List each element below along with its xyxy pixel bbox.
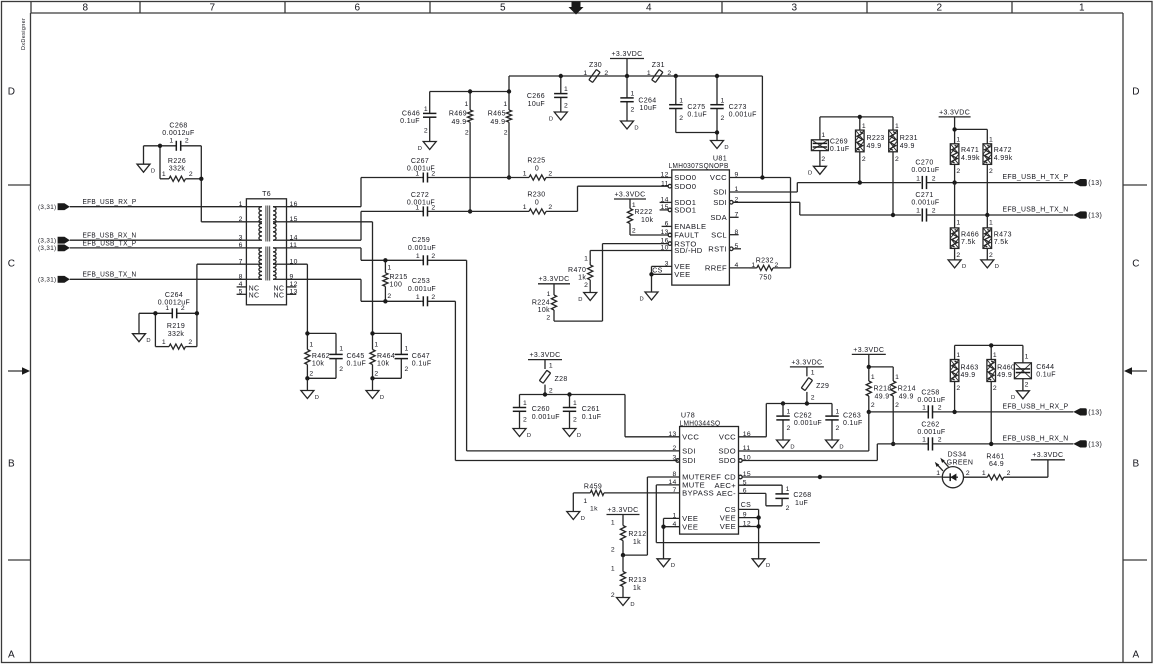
svg-text:2: 2 — [431, 204, 435, 211]
capacitor C271 — [911, 192, 1073, 222]
svg-text:2: 2 — [405, 366, 409, 373]
ground for C261 — [563, 429, 581, 439]
ground for R462/C645 — [301, 391, 319, 401]
svg-text:+3.3VDC: +3.3VDC — [791, 359, 822, 366]
junction U78 VEE left — [661, 525, 665, 529]
wire C275/C273 bottoms — [676, 133, 717, 141]
svg-text:1: 1 — [503, 101, 507, 108]
svg-text:4.99k: 4.99k — [961, 155, 980, 162]
ground for C262 — [777, 440, 795, 450]
svg-text:2: 2 — [787, 425, 791, 432]
wire termination rail — [820, 117, 893, 140]
svg-text:2: 2 — [604, 70, 608, 77]
junction R215 bottom — [383, 299, 387, 303]
port EFB_USB_H_TX_P — [1003, 174, 1103, 187]
svg-text:0.001uF: 0.001uF — [729, 111, 757, 118]
svg-text:BYPASS: BYPASS — [682, 489, 714, 498]
junction R460 on RX_N — [989, 442, 993, 446]
wire T6 pin11 to C259 row — [287, 248, 422, 260]
svg-text:49.9: 49.9 — [451, 119, 466, 126]
junction C261 top — [567, 392, 571, 396]
resistor R215 — [383, 260, 408, 301]
ground for R466 — [948, 260, 966, 270]
svg-text:Z29: Z29 — [816, 383, 829, 390]
ferrite bead Z31 — [647, 62, 672, 82]
svg-text:13: 13 — [668, 431, 676, 438]
svg-text:SDO0: SDO0 — [674, 182, 696, 191]
svg-text:EFB_USB_RX_P: EFB_USB_RX_P — [83, 197, 137, 206]
wire left decoupling rail — [430, 76, 509, 92]
svg-text:7.5k: 7.5k — [961, 239, 976, 246]
svg-text:2: 2 — [309, 370, 313, 377]
svg-text:2: 2 — [573, 416, 577, 423]
junction R464 top — [370, 331, 374, 335]
wire U78 VEE left to ground — [664, 518, 680, 558]
svg-text:1: 1 — [523, 400, 527, 407]
svg-text:2: 2 — [431, 170, 435, 177]
capacitor C270 — [911, 160, 1073, 190]
svg-text:1: 1 — [424, 106, 428, 113]
svg-text:6: 6 — [355, 3, 361, 14]
svg-text:D: D — [634, 125, 639, 131]
ground for R470 — [578, 293, 596, 303]
svg-text:2: 2 — [932, 208, 936, 215]
svg-text:C647: C647 — [412, 353, 430, 360]
svg-text:1: 1 — [647, 70, 651, 77]
junction R464 bottom — [370, 376, 374, 380]
svg-text:2: 2 — [523, 416, 527, 423]
svg-text:C267: C267 — [411, 158, 429, 165]
svg-text:2: 2 — [721, 115, 725, 122]
svg-text:12: 12 — [290, 281, 298, 288]
capacitor C264 — [155, 292, 197, 318]
svg-text:1: 1 — [836, 409, 840, 416]
svg-text:DS34: DS34 — [948, 452, 967, 459]
junction C266 top — [559, 74, 563, 78]
capacitor C268 — [160, 123, 201, 151]
svg-text:R218: R218 — [874, 386, 892, 393]
junction U78 VEE9 — [756, 515, 760, 519]
wire R232 to VCC — [790, 178, 792, 268]
svg-text:1: 1 — [339, 346, 343, 353]
svg-text:A: A — [1132, 650, 1139, 661]
resistor R226 — [160, 158, 201, 181]
svg-text:SDO0: SDO0 — [674, 173, 696, 182]
junction R462 bottom — [305, 376, 309, 380]
svg-text:(13): (13) — [1088, 409, 1102, 416]
resistor R473 (hatched) — [983, 215, 1012, 260]
svg-text:0.1uF: 0.1uF — [412, 360, 432, 367]
svg-text:1: 1 — [916, 208, 920, 215]
svg-text:VCC: VCC — [719, 433, 736, 442]
junction R462 top — [305, 331, 309, 335]
svg-text:R231: R231 — [900, 135, 918, 142]
svg-text:(13): (13) — [1088, 213, 1102, 220]
capacitor C258 — [869, 389, 1074, 418]
resistor R230 — [523, 192, 553, 214]
port EFB_USB_H_TX_N — [1003, 207, 1103, 220]
svg-text:2: 2 — [188, 339, 192, 346]
svg-text:2: 2 — [672, 445, 676, 452]
svg-text:C253: C253 — [412, 278, 430, 285]
svg-text:VEE: VEE — [682, 522, 698, 531]
ground for U81 VEE — [640, 292, 658, 302]
junction R471 feed — [952, 127, 956, 131]
ground for C266 — [549, 112, 567, 122]
svg-text:2: 2 — [548, 204, 552, 211]
resistor R224 pull-up — [532, 276, 570, 321]
svg-text:C272: C272 — [411, 192, 429, 199]
svg-text:RSTI: RSTI — [708, 245, 727, 254]
svg-text:D: D — [766, 563, 771, 569]
svg-text:EFB_USB_H_RX_N: EFB_USB_H_RX_N — [1003, 436, 1069, 443]
resistor R470 — [568, 255, 593, 292]
wire R463/R460/C644 rail — [955, 345, 1023, 362]
svg-text:D: D — [581, 516, 586, 522]
svg-text:D: D — [1132, 87, 1140, 98]
svg-text:2: 2 — [821, 156, 825, 163]
svg-text:Z28: Z28 — [555, 376, 568, 383]
capacitor C253 — [408, 278, 455, 306]
svg-text:(13): (13) — [1088, 180, 1102, 187]
svg-text:Z31: Z31 — [652, 62, 665, 69]
svg-text:+3.3VDC: +3.3VDC — [611, 51, 642, 58]
svg-text:1: 1 — [583, 70, 587, 77]
svg-text:C269: C269 — [830, 138, 848, 145]
svg-text:2: 2 — [504, 130, 508, 137]
svg-text:1: 1 — [584, 255, 588, 262]
ferrite bead Z28 — [528, 352, 568, 395]
svg-text:1: 1 — [387, 264, 391, 271]
svg-text:2: 2 — [811, 395, 815, 402]
svg-text:1k: 1k — [578, 275, 586, 282]
resistor R460 (hatched) — [987, 352, 1015, 444]
svg-text:0.0012uF: 0.0012uF — [162, 130, 194, 137]
junction Z29 out — [805, 401, 809, 405]
svg-text:7.5k: 7.5k — [994, 239, 1009, 246]
svg-text:VEE: VEE — [720, 513, 736, 522]
wire top +3.3V rail — [509, 76, 762, 178]
junction R465 bottom on C267 row — [507, 175, 511, 179]
junction U81 VEE — [649, 272, 653, 276]
svg-text:1: 1 — [956, 219, 960, 226]
svg-text:4.99k: 4.99k — [994, 155, 1013, 162]
svg-text:R222: R222 — [635, 209, 653, 216]
resistor R465 — [488, 92, 512, 178]
svg-text:D: D — [995, 264, 1000, 270]
svg-text:0.001uF: 0.001uF — [408, 286, 436, 293]
svg-text:2: 2 — [938, 405, 942, 412]
svg-text:1: 1 — [631, 91, 635, 98]
svg-text:R471: R471 — [961, 147, 979, 154]
wire EFB_USB_TX_N — [70, 278, 247, 280]
svg-text:3: 3 — [792, 3, 798, 14]
svg-text:CS: CS — [741, 502, 751, 509]
resistor R461 — [964, 453, 1048, 480]
wire C268 to R226 left — [159, 146, 161, 179]
svg-text:R465: R465 — [488, 111, 506, 118]
svg-text:C646: C646 — [402, 111, 420, 118]
svg-text:1k: 1k — [633, 539, 641, 546]
resistor R222 pull-up — [614, 191, 653, 235]
capacitor C263 — [825, 408, 862, 441]
svg-text:7: 7 — [210, 3, 216, 14]
svg-text:750: 750 — [759, 274, 772, 281]
svg-text:2: 2 — [966, 470, 970, 477]
svg-text:D: D — [962, 264, 967, 270]
junction R471 on TX_P — [952, 180, 956, 184]
svg-text:64.9: 64.9 — [989, 461, 1004, 468]
svg-text:0: 0 — [535, 199, 539, 206]
svg-text:R472: R472 — [994, 147, 1012, 154]
capacitor C260 — [513, 395, 560, 429]
svg-text:2: 2 — [895, 402, 899, 409]
svg-text:1: 1 — [895, 123, 899, 130]
junction R218 on RX_P — [867, 410, 871, 414]
svg-text:+3.3VDC: +3.3VDC — [607, 507, 638, 514]
svg-text:2: 2 — [374, 370, 378, 377]
svg-text:VCC: VCC — [682, 433, 699, 442]
junction C264 pin1 — [153, 311, 157, 315]
ground for C646 — [418, 142, 436, 152]
svg-text:1: 1 — [374, 342, 378, 349]
svg-text:C644: C644 — [1036, 364, 1054, 371]
svg-text:C273: C273 — [729, 104, 747, 111]
svg-text:SDI: SDI — [682, 447, 696, 456]
svg-text:NC: NC — [249, 293, 260, 300]
resistor R223 (hatched) — [856, 123, 885, 183]
ground for U78 VEE right — [752, 559, 770, 569]
svg-text:+3.3VDC: +3.3VDC — [853, 347, 884, 354]
svg-text:0.001uF: 0.001uF — [911, 200, 939, 207]
junction +3.3VDC rail — [625, 74, 629, 78]
top center arrow — [569, 2, 584, 15]
svg-text:2: 2 — [932, 175, 936, 182]
resistor R464 / capacitor C647 — [370, 333, 432, 378]
svg-text:C268: C268 — [793, 492, 811, 499]
resistor R466 (hatched) — [950, 183, 979, 260]
ground for R459 — [567, 512, 585, 522]
capacitor C262 — [776, 404, 822, 441]
svg-text:A: A — [8, 650, 15, 661]
wire R464 to ground — [372, 378, 374, 390]
svg-text:4: 4 — [646, 3, 652, 14]
svg-text:2: 2 — [181, 305, 185, 312]
svg-text:4: 4 — [239, 281, 243, 288]
svg-text:R226: R226 — [168, 158, 186, 165]
svg-text:R223: R223 — [867, 135, 885, 142]
svg-text:R463: R463 — [961, 364, 979, 371]
junction R212/R213 node — [621, 553, 625, 557]
junction U81 VCC — [760, 175, 764, 179]
svg-text:1: 1 — [982, 470, 986, 477]
svg-text:1: 1 — [679, 97, 683, 104]
junction termination rail — [858, 115, 862, 119]
junction R223 on TX_P — [858, 180, 862, 184]
svg-text:+3.3VDC: +3.3VDC — [1032, 452, 1063, 459]
svg-text:10uF: 10uF — [640, 105, 657, 112]
svg-text:2: 2 — [387, 293, 391, 300]
junction Z28 out — [543, 392, 547, 396]
svg-text:1: 1 — [162, 171, 166, 178]
ground for C269 — [808, 166, 826, 176]
power +3.3VDC for R218/R214 — [852, 347, 893, 381]
svg-text:2: 2 — [611, 592, 615, 599]
svg-text:C268: C268 — [169, 123, 187, 130]
svg-text:2: 2 — [465, 130, 469, 137]
capacitor C267 — [407, 158, 509, 183]
svg-text:C263: C263 — [843, 412, 861, 419]
junction C273 bottom — [715, 130, 719, 134]
junction R231 on TX_N — [891, 213, 895, 217]
svg-text:0.1uF: 0.1uF — [830, 146, 850, 153]
svg-text:2: 2 — [989, 168, 993, 175]
svg-text:VEE: VEE — [674, 270, 690, 279]
wire EFB_USB_RX_P — [70, 206, 247, 208]
svg-text:2: 2 — [631, 107, 635, 114]
wire C264 to R219 left — [154, 313, 156, 346]
junction R472 on TX_N — [985, 213, 989, 217]
svg-text:1k: 1k — [633, 585, 641, 592]
svg-text:R459: R459 — [584, 483, 602, 490]
power +3.3VDC top — [610, 51, 644, 76]
svg-text:R462: R462 — [312, 353, 330, 360]
svg-text:R466: R466 — [961, 231, 979, 238]
svg-text:2: 2 — [564, 102, 568, 109]
resistor R218 — [866, 367, 891, 412]
wire T6 pin16 to C267 row — [287, 178, 422, 207]
svg-text:1: 1 — [239, 201, 243, 208]
svg-text:49.9: 49.9 — [867, 143, 882, 150]
node CS at U81 — [652, 268, 662, 275]
svg-text:2: 2 — [989, 252, 993, 259]
svg-text:NC: NC — [273, 293, 284, 300]
svg-text:0.1uF: 0.1uF — [582, 414, 602, 421]
svg-text:1: 1 — [787, 409, 791, 416]
svg-text:1: 1 — [573, 400, 577, 407]
wire U81 VCC — [729, 177, 790, 179]
junction R469 top — [468, 89, 472, 93]
svg-text:C: C — [1132, 259, 1140, 270]
svg-text:0.0012uF: 0.0012uF — [158, 300, 190, 307]
svg-text:EFB_USB_H_TX_N: EFB_USB_H_TX_N — [1003, 207, 1069, 214]
svg-text:R225: R225 — [527, 158, 545, 165]
wire C267 to R225 — [509, 177, 529, 179]
svg-text:0.001uF: 0.001uF — [408, 245, 436, 252]
svg-text:GREEN: GREEN — [947, 460, 974, 467]
svg-text:1: 1 — [871, 374, 875, 381]
junction Z31 out — [674, 74, 678, 78]
LED DS34 — [935, 452, 974, 488]
svg-text:VCC: VCC — [710, 173, 727, 182]
svg-text:B: B — [1132, 459, 1139, 470]
wire U78 CS/VEE right to ground — [739, 509, 759, 558]
op-amp U81 LMH0307SQNOPB — [660, 153, 741, 285]
svg-text:2: 2 — [1025, 382, 1029, 389]
svg-text:(3,31): (3,31) — [38, 238, 57, 245]
svg-text:1: 1 — [916, 175, 920, 182]
capacitor C644 (hatched) — [1014, 354, 1055, 391]
svg-text:0.001uF: 0.001uF — [911, 167, 939, 174]
svg-text:D: D — [380, 395, 385, 401]
power +3.3VDC for R461 — [1031, 452, 1065, 477]
svg-text:1: 1 — [583, 498, 587, 505]
left margin arrow — [8, 367, 30, 374]
svg-text:1: 1 — [169, 138, 173, 145]
svg-text:LMH0344SQ: LMH0344SQ — [680, 418, 721, 427]
svg-text:C271: C271 — [915, 192, 933, 199]
junction R463 on RX_P — [952, 410, 956, 414]
resistor R231 (hatched) — [889, 123, 918, 215]
svg-text:R219: R219 — [167, 323, 185, 330]
svg-text:2: 2 — [956, 385, 960, 392]
capacitor C646 — [400, 92, 436, 142]
port EFB_USB_H_RX_N — [1003, 436, 1103, 449]
port EFB_USB_TX_P — [38, 238, 137, 252]
svg-text:C: C — [8, 259, 16, 270]
svg-text:R469: R469 — [449, 111, 467, 118]
svg-text:SDO: SDO — [718, 456, 736, 465]
svg-text:2: 2 — [679, 115, 683, 122]
resistor R463 (hatched) — [950, 352, 978, 412]
wire C259 to U78 SDI — [467, 260, 680, 451]
svg-text:1: 1 — [611, 519, 615, 526]
svg-text:1: 1 — [811, 370, 815, 377]
resistor R459 — [573, 483, 679, 512]
svg-text:(3,31): (3,31) — [38, 245, 57, 252]
svg-text:332k: 332k — [169, 166, 186, 173]
junction R215 top — [383, 258, 387, 262]
wire lower VCC rail — [520, 395, 680, 437]
svg-text:2: 2 — [836, 425, 840, 432]
capacitor C264 10uF — [620, 76, 657, 121]
junction U78 VEE12 — [756, 524, 760, 528]
svg-text:2: 2 — [632, 227, 636, 234]
svg-text:5: 5 — [500, 3, 506, 14]
svg-text:2: 2 — [546, 314, 550, 321]
column numbers — [83, 3, 1086, 14]
svg-text:49.9: 49.9 — [900, 143, 915, 150]
svg-text:B: B — [8, 459, 15, 470]
svg-text:D: D — [418, 146, 423, 152]
resistor R212 — [607, 507, 647, 555]
resistor R469 — [449, 92, 473, 212]
capacitor C272 — [407, 192, 470, 217]
resistor R214 — [891, 374, 916, 444]
svg-text:D: D — [151, 169, 156, 175]
resistor R232 — [729, 257, 790, 281]
svg-text:0.001uF: 0.001uF — [917, 397, 945, 404]
svg-text:1: 1 — [309, 342, 313, 349]
svg-text:1: 1 — [564, 86, 568, 93]
wire R230 to U81 SDO0- — [546, 186, 668, 211]
svg-text:2: 2 — [956, 252, 960, 259]
svg-text:2: 2 — [549, 387, 553, 394]
svg-text:1: 1 — [993, 352, 997, 359]
junction R460 top — [989, 343, 993, 347]
svg-text:0.001uF: 0.001uF — [532, 414, 560, 421]
capacitor C261 — [563, 395, 602, 429]
svg-text:1: 1 — [936, 470, 940, 477]
svg-text:R215: R215 — [390, 274, 408, 281]
svg-text:SDO: SDO — [718, 447, 736, 456]
svg-text:10k: 10k — [538, 307, 550, 314]
wire T6 pin9 to C253 row — [287, 279, 422, 301]
svg-text:D: D — [839, 444, 844, 450]
junction CD/MUTE — [818, 475, 822, 479]
svg-text:1: 1 — [523, 204, 527, 211]
svg-text:2: 2 — [937, 3, 943, 14]
